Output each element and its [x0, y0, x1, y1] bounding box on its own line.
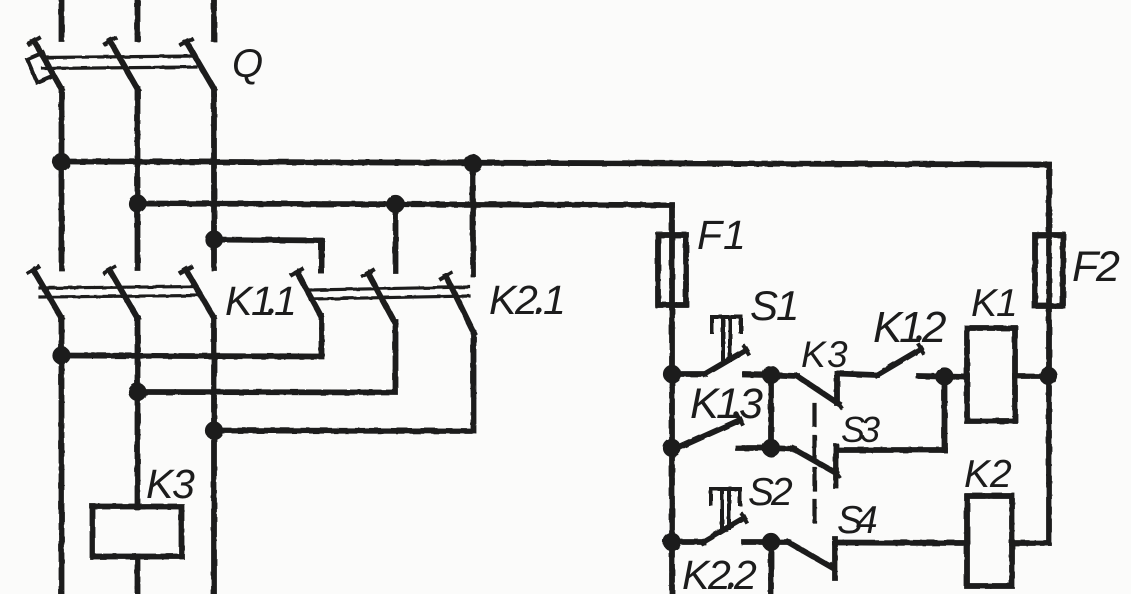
switch S3 tip tick	[834, 469, 839, 476]
node cross1-L1	[55, 349, 67, 361]
switch Q actuator box	[27, 53, 52, 83]
pushbutton S2 tip tick	[742, 514, 747, 522]
wire cross connection phase1	[62, 316, 322, 357]
switch S3 blade (NC)	[794, 449, 836, 473]
svg-text:K3: K3	[146, 461, 195, 507]
contactor K2.1 pole 2 tick	[363, 270, 373, 276]
switch Q pole 3 tick	[182, 39, 192, 45]
coil K2	[967, 496, 1012, 586]
wire bus 3	[214, 240, 322, 272]
contact K1.2 tip tick	[919, 345, 923, 353]
wire S1 right stub	[745, 372, 771, 378]
contact K1.3 blade (NO)	[680, 420, 740, 447]
node K1 coil left	[938, 370, 950, 382]
wire S3 return riser	[942, 377, 948, 451]
wire K3 contact left stub	[771, 375, 797, 376]
wire L2 middle	[135, 89, 141, 268]
contact K1.2 blade (NO)	[877, 349, 921, 375]
svg-text:K2.2: K2.2	[682, 552, 757, 594]
contact K3 bar	[834, 374, 840, 404]
contactor K1.1 pole 2 blade	[110, 270, 138, 318]
svg-text:K1.2: K1.2	[873, 303, 946, 352]
svg-text:K1: K1	[971, 282, 1018, 325]
node tie-row1	[765, 369, 777, 381]
node bus3-L3	[208, 233, 220, 245]
wire bus 2	[138, 204, 673, 206]
switch S4 bar	[832, 539, 838, 578]
svg-text:K2.1: K2.1	[489, 277, 566, 323]
wire S4 to K2 coil	[835, 540, 967, 546]
contact K3 tip tick	[837, 400, 842, 407]
contactor K2.1 pole 2 stub	[393, 204, 399, 271]
contactor K2.1 pole 3 tick	[441, 273, 451, 279]
wire L2 lower	[135, 318, 141, 507]
switch S3 bar	[833, 446, 839, 486]
wire right rail	[1046, 165, 1052, 544]
switch S4 tip tick	[831, 564, 836, 571]
contactor K2.1 linkage bars	[310, 287, 469, 290]
svg-text:S4: S4	[837, 499, 878, 542]
switch Q pole 1 blade	[34, 41, 62, 89]
contactor K2.1 pole 3 stub	[470, 164, 476, 275]
fuse F2	[1035, 235, 1063, 306]
contactor K1.1 pole 1 blade	[34, 270, 62, 318]
contact K1.3 tip tick	[738, 416, 742, 424]
switch Q pole 2 blade	[110, 41, 138, 89]
node K1-rail	[1042, 370, 1054, 382]
wire cross connection phase3	[214, 333, 474, 431]
svg-text:F1: F1	[697, 212, 746, 258]
switch Q pole 1 tick	[29, 38, 39, 44]
wire S2 left stub	[672, 539, 703, 545]
pushbutton S1 tip tick	[744, 346, 749, 354]
contactor K2.1 pole 1 blade	[297, 272, 321, 316]
contactor K1.1 pole 1 tick	[29, 267, 39, 273]
node tie-row3	[765, 536, 777, 548]
contactor K2.1 pole 1 tick	[292, 269, 302, 275]
wire K1 coil right	[1015, 373, 1049, 379]
switch Q pole 2 tick	[105, 38, 115, 44]
node rail-S1	[666, 368, 678, 380]
wire L1 middle	[59, 89, 65, 268]
contactor K2.1 pole 1 stub	[319, 241, 325, 271]
fuse F1	[658, 235, 686, 305]
node cross2-L2	[131, 386, 143, 398]
wire S3 return	[836, 447, 945, 453]
svg-text:K1.1: K1.1	[225, 278, 297, 324]
wire L2 top stub	[135, 0, 141, 39]
wire S4 left stub	[771, 539, 788, 545]
wire K1.3 right stub	[738, 445, 771, 451]
wire L3 lower	[211, 318, 217, 594]
mechanical link dashed S3-S4	[812, 405, 816, 521]
node cross3-L3	[208, 424, 220, 436]
contactor K2.1 pole 2 blade	[368, 273, 395, 323]
svg-text:Q: Q	[232, 42, 263, 86]
node bus2-K2.1 tap	[389, 198, 401, 210]
node bus2-L2	[131, 197, 143, 209]
switch S4 blade (NC)	[788, 542, 833, 568]
contact K3 blade (NC)	[797, 376, 839, 404]
wire L3 middle	[211, 89, 217, 268]
svg-text:K1.3: K1.3	[690, 380, 763, 428]
pushbutton S2 blade	[703, 518, 744, 542]
switch Q linkage bars	[43, 56, 196, 58]
wire S1 left stub	[672, 371, 705, 377]
wire K3 to K1.2	[837, 374, 877, 376]
pushbutton S1 blade	[705, 350, 746, 374]
svg-text:S3: S3	[841, 409, 880, 450]
wire control rail left (F1 branch)	[669, 205, 675, 594]
svg-text:K3: K3	[801, 334, 848, 375]
contactor K1.1 linkage bars	[40, 287, 197, 289]
wire into K1 coil	[945, 374, 968, 380]
pushbutton S1 actuator	[712, 317, 741, 360]
node rail-K1.3	[666, 442, 678, 454]
node bus1-L1	[55, 156, 67, 168]
node bus1-K2.1 tap	[467, 157, 479, 169]
coil K3	[93, 507, 182, 557]
wire row3 drop	[768, 542, 774, 594]
contactor K2.1 pole 3 blade	[446, 276, 474, 333]
wire row1-row2 tie	[768, 375, 774, 448]
svg-text:F2: F2	[1072, 243, 1120, 291]
node tie-row2	[765, 442, 777, 454]
contactor K1.1 pole 2 tick	[105, 267, 115, 273]
wire cross connection phase2	[138, 322, 396, 393]
pushbutton S2 actuator	[711, 489, 740, 528]
wire K1.2 right stub	[919, 373, 945, 379]
wire bus 1	[62, 162, 1050, 165]
node rail-S2	[666, 536, 678, 548]
wire K2 coil right	[1012, 540, 1049, 546]
switch Q pole 3 blade	[187, 42, 215, 89]
contactor K1.1 pole 3 blade	[186, 270, 214, 318]
wire L1 top stub	[59, 0, 65, 39]
label period dots reinforcement	[268, 307, 921, 587]
svg-text:S2: S2	[748, 471, 793, 514]
coil K1	[967, 328, 1015, 421]
wire L1 lower	[59, 318, 65, 594]
svg-text:K2: K2	[964, 453, 1012, 496]
wire L3 top stub	[211, 0, 217, 39]
svg-text:S1: S1	[750, 282, 799, 329]
wire S3 left stub	[771, 448, 794, 449]
wire K3 coil bottom	[135, 557, 141, 594]
wire S2 right stub	[744, 539, 771, 545]
contactor K1.1 pole 3 tick	[181, 267, 191, 273]
